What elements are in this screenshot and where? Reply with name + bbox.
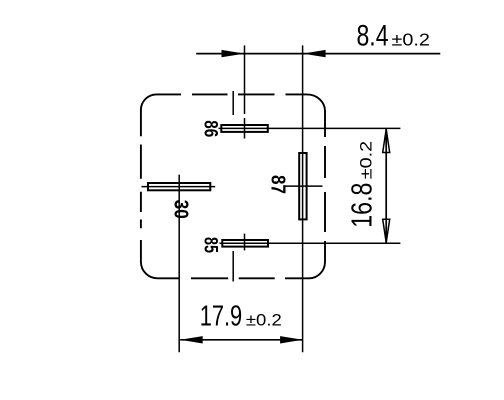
- bottom edge: [191, 277, 310, 279]
- left edge: [140, 110, 142, 262]
- pin 86 horizontal centerline / 16.8 top extension: [219, 127, 401, 129]
- relay body outline (dashed rounded square): [141, 94, 325, 278]
- svg-text:±0.2: ±0.2: [246, 311, 282, 330]
- pin 87 vertical centerline / 8.4 right extension / 17.9 right extension: [302, 45, 304, 352]
- svg-text:±0.2: ±0.2: [392, 29, 430, 49]
- corner top-left: [141, 94, 156, 110]
- corner bottom-left + dash: [141, 262, 179, 278]
- dimension 8.4 left arrowhead: [222, 50, 245, 57]
- dimension 16.8 line (right): [385, 128, 387, 243]
- svg-text:8.4: 8.4: [357, 19, 389, 52]
- svg-text:±0.2: ±0.2: [357, 141, 376, 179]
- pin 85 horizontal centerline / 16.8 bottom extension: [220, 242, 401, 244]
- pin 30 terminal blade: [148, 183, 210, 190]
- pin 30 vertical centerline / 17.9 left extension: [178, 175, 180, 353]
- dimension 17.9 right arrowhead: [280, 336, 303, 343]
- svg-text:85: 85: [199, 237, 220, 253]
- svg-text:30: 30: [169, 200, 191, 219]
- svg-text:16.8: 16.8: [347, 183, 379, 228]
- pin 86 terminal blade: [221, 125, 267, 132]
- right edge: [324, 111, 326, 262]
- svg-text:17.9: 17.9: [200, 301, 243, 333]
- dimension 17.9 line (bottom): [180, 339, 302, 341]
- dimension 8.4 line (top): [196, 53, 440, 55]
- pin 30 horizontal centerline: [142, 186, 216, 188]
- corner bottom-right: [310, 262, 326, 278]
- pin 87 terminal blade: [299, 153, 306, 219]
- dimension 8.4 right arrowhead: [303, 50, 326, 57]
- svg-text:87: 87: [266, 175, 288, 194]
- pin 85 vertical centerline: [244, 234, 246, 251]
- dimension 16.8 bottom arrowhead: [383, 219, 390, 242]
- pin 85 terminal blade: [222, 240, 268, 247]
- corner top-right: [307, 94, 325, 111]
- body vertical centerline: [232, 91, 234, 282]
- dimension 17.9 left arrowhead: [180, 336, 203, 343]
- dimension 16.8 top arrowhead: [383, 129, 390, 152]
- top edge: [156, 93, 307, 95]
- pin 86 vertical centerline / 8.4 left extension: [244, 45, 246, 138]
- svg-text:86: 86: [199, 120, 220, 137]
- pin 87 horizontal centerline: [284, 185, 323, 187]
